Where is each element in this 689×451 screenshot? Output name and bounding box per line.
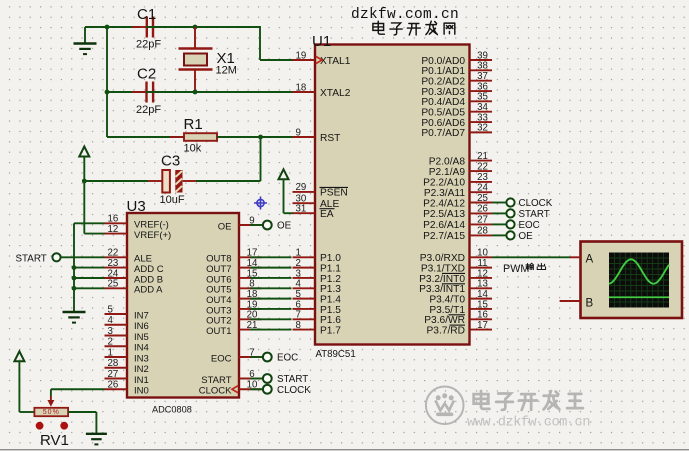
svg-text:P0.7/AD7: P0.7/AD7 — [421, 128, 465, 139]
svg-text:22pF: 22pF — [136, 104, 161, 116]
junction — [72, 276, 77, 281]
svg-text:32: 32 — [477, 123, 488, 134]
U1 pin 8 P1.7 — [293, 320, 342, 337]
wire — [146, 26, 195, 28]
svg-text:IN3: IN3 — [134, 353, 149, 364]
junction — [105, 25, 110, 30]
U1 pin 39 P0.0/AD0 — [421, 50, 492, 67]
svg-text:XTAL1: XTAL1 — [320, 56, 351, 67]
svg-text:OE: OE — [218, 221, 232, 232]
svg-text:5: 5 — [108, 304, 113, 315]
svg-text:23: 23 — [108, 258, 119, 269]
svg-text:25: 25 — [477, 193, 488, 204]
label R1 — [184, 116, 203, 133]
svg-text:P2.0/A8: P2.0/A8 — [429, 156, 466, 167]
power +5V — [79, 147, 89, 182]
svg-text:12M: 12M — [216, 65, 237, 77]
potentiometer RV1 — [34, 408, 68, 416]
wire — [107, 91, 146, 93]
U3 pin 25 ADD A — [105, 279, 164, 296]
U3 pin 7 EOC — [211, 347, 262, 364]
svg-text:ADC0808: ADC0808 — [152, 404, 192, 414]
terminal EOC — [263, 353, 298, 364]
U3 pin 16 VREF(-) — [105, 214, 169, 231]
terminal CLOCK — [263, 385, 311, 396]
U3 pin 3 IN5 — [105, 326, 149, 343]
wire — [84, 180, 148, 182]
U3 pin 26 IN0 — [105, 380, 149, 397]
svg-text:START: START — [16, 254, 47, 265]
node PWM output — [503, 263, 529, 275]
microcontroller U1 — [312, 33, 470, 360]
U1 pin 18 XTAL2 — [293, 82, 351, 99]
svg-text:36: 36 — [477, 81, 488, 92]
U1 pin 4 P1.3 — [293, 279, 342, 296]
U1 pin 15 P3.5/T1 — [429, 299, 492, 316]
wire OUT1 to P1.7 — [250, 329, 292, 331]
ADC U3 — [127, 198, 240, 414]
junction — [72, 286, 77, 291]
ground — [63, 312, 86, 323]
svg-text:18: 18 — [296, 82, 307, 93]
U1 pin 23 P2.2/A10 — [423, 172, 492, 189]
svg-text:IN7: IN7 — [134, 310, 149, 321]
svg-text:12: 12 — [108, 224, 119, 235]
label C2 — [137, 66, 156, 83]
U3 pin 27 IN1 — [105, 369, 149, 386]
U1 pin 14 P3.4/T0 — [429, 289, 492, 306]
wire — [250, 224, 263, 226]
value 12M — [216, 65, 237, 77]
U1 pin 3 P1.2 — [293, 268, 342, 285]
wire — [84, 181, 105, 234]
svg-text:C2: C2 — [137, 66, 156, 83]
junction — [258, 135, 263, 140]
svg-text:U3: U3 — [127, 198, 146, 215]
svg-text:IN6: IN6 — [134, 321, 149, 332]
U1 PSEN overline — [320, 186, 349, 188]
watermark 电子开发网 — [373, 21, 455, 35]
U3 pin 12 VREF(+) — [105, 224, 172, 241]
svg-text:A: A — [586, 254, 594, 266]
svg-text:19: 19 — [296, 50, 307, 61]
U1 pin 32 P0.7/AD7 — [421, 123, 492, 140]
U1 pin 22 P2.1/A9 — [429, 161, 492, 178]
svg-text:dzkfw.com.cn: dzkfw.com.cn — [351, 7, 459, 23]
capacitor C1 — [132, 17, 168, 38]
U3 pin 2 IN4 — [105, 337, 149, 354]
U3 pin 19 OUT3 — [206, 299, 261, 316]
value 22pF — [136, 104, 161, 116]
terminal START — [16, 253, 61, 265]
U1 pin 2 P1.1 — [293, 258, 342, 275]
U1 pin 37 P0.2/AD2 — [421, 71, 492, 88]
crystal X1 — [179, 27, 213, 92]
U1 pin 31 EA — [293, 204, 334, 221]
U1 pin 1 P1.0 — [293, 248, 342, 265]
svg-text:4: 4 — [108, 315, 114, 326]
capacitor C3 — [148, 170, 196, 193]
U1 pin 19 XTAL1 — [293, 50, 351, 67]
power +5V — [279, 169, 289, 213]
U1 pin 12 P3.2/INT0 — [419, 268, 492, 285]
U1 pin 6 P1.5 — [293, 299, 342, 316]
svg-text:1: 1 — [108, 347, 113, 358]
svg-text:OUT1: OUT1 — [206, 326, 231, 337]
wire — [195, 26, 294, 60]
U1 pin 9 RST — [293, 127, 341, 144]
svg-text:P2.1/A9: P2.1/A9 — [429, 167, 466, 178]
wire — [284, 212, 294, 214]
wire — [492, 212, 506, 214]
svg-text:U1: U1 — [312, 33, 331, 50]
svg-text:C3: C3 — [161, 153, 180, 170]
U1 pin 7 P1.6 — [293, 310, 342, 327]
svg-text:35: 35 — [477, 92, 488, 103]
U1 pin 21 P2.0/A8 — [429, 151, 492, 168]
label C3 — [161, 153, 180, 170]
svg-text:B: B — [586, 298, 594, 310]
ground — [74, 27, 97, 54]
wire — [106, 26, 108, 92]
U3 pin 4 IN6 — [105, 315, 149, 332]
wire — [74, 267, 105, 269]
U3 pin 28 IN2 — [105, 358, 149, 375]
wire — [250, 388, 263, 390]
ground — [86, 434, 107, 445]
svg-text:START: START — [201, 375, 231, 386]
wire — [492, 234, 506, 236]
svg-text:ADD A: ADD A — [134, 285, 163, 296]
U1 pin 11 P3.1/TXD — [421, 258, 492, 275]
node PWM output cjk — [526, 263, 546, 270]
wire OUT6 to P1.2 — [250, 277, 292, 279]
junction — [105, 90, 110, 95]
value 10k — [184, 143, 202, 155]
value 10uF — [160, 194, 185, 206]
wire — [492, 223, 506, 225]
wire — [107, 92, 184, 137]
svg-text:9: 9 — [296, 127, 301, 138]
U1 pin 5 P1.4 — [293, 289, 342, 306]
U3 pin 10 CLOCK — [199, 380, 262, 397]
svg-text:50%: 50% — [43, 409, 60, 416]
oscilloscope — [560, 242, 682, 319]
wire — [146, 91, 195, 93]
wire — [74, 277, 105, 279]
junction — [193, 25, 198, 30]
wire — [250, 378, 263, 380]
svg-text:RST: RST — [320, 133, 340, 144]
U3 pin 14 OUT7 — [206, 258, 261, 275]
svg-text:CLOCK: CLOCK — [519, 198, 553, 209]
label C1 — [137, 6, 156, 23]
svg-text:IN5: IN5 — [134, 332, 149, 343]
svg-text:EA: EA — [320, 209, 334, 220]
U1 pin 35 P0.4/AD4 — [421, 92, 492, 109]
svg-text:P2.6/A14: P2.6/A14 — [423, 220, 465, 231]
terminal OE — [506, 231, 533, 242]
wire — [61, 256, 105, 258]
wire — [74, 223, 105, 312]
power +5V — [14, 351, 24, 412]
wire — [85, 26, 140, 28]
resistor R1 — [170, 133, 231, 141]
wire OUT8 to P1.0 — [250, 256, 292, 258]
wire — [19, 411, 34, 413]
terminal CLOCK — [506, 198, 552, 209]
svg-text:22pF: 22pF — [136, 39, 161, 51]
svg-text:22: 22 — [477, 161, 488, 172]
svg-text:AT89C51: AT89C51 — [316, 349, 356, 360]
svg-text:21: 21 — [477, 151, 488, 162]
svg-text:P2.5/A13: P2.5/A13 — [423, 209, 465, 220]
U1 pin 30 ALE — [293, 194, 340, 211]
svg-text:27: 27 — [108, 369, 119, 380]
svg-text:2: 2 — [108, 337, 113, 348]
svg-text:3: 3 — [108, 326, 113, 337]
U1 pin 24 P2.3/A11 — [424, 183, 492, 200]
svg-text:EOC: EOC — [211, 353, 232, 364]
wire — [250, 356, 263, 358]
capacitor C2 — [132, 82, 168, 103]
U3 pin 18 OUT4 — [206, 289, 261, 306]
label X1 — [217, 50, 235, 67]
wire — [51, 388, 105, 390]
U1 pin 10 P3.0/RXD — [420, 248, 492, 265]
svg-text:EOC: EOC — [277, 353, 298, 364]
svg-text:ADD C: ADD C — [134, 264, 164, 275]
svg-text:28: 28 — [108, 358, 119, 369]
wire — [217, 136, 294, 138]
origin marker — [254, 197, 267, 210]
wire — [195, 91, 294, 93]
value 22pF — [136, 39, 161, 51]
svg-text:C1: C1 — [137, 6, 156, 23]
svg-text:31: 31 — [296, 204, 307, 215]
svg-text:26: 26 — [108, 380, 119, 391]
svg-text:IN0: IN0 — [134, 386, 149, 397]
U1 pin 34 P0.5/AD5 — [421, 102, 492, 119]
U3 pin 22 ALE — [105, 248, 152, 265]
wiper arrow — [47, 389, 54, 407]
svg-text:www.dzkfw.com.cn: www.dzkfw.com.cn — [467, 415, 590, 431]
svg-text:27: 27 — [477, 215, 488, 226]
U3 pin 15 OUT6 — [206, 268, 261, 285]
svg-text:IN2: IN2 — [134, 364, 149, 375]
wire — [492, 202, 506, 204]
U1 pin 28 P2.7/A15 — [423, 226, 492, 243]
svg-text:R1: R1 — [184, 116, 203, 133]
wire OUT5 to P1.3 — [250, 287, 292, 289]
wire OUT4 to P1.4 — [250, 298, 292, 300]
wire OUT3 to P1.5 — [250, 308, 292, 310]
svg-text:8: 8 — [296, 320, 301, 331]
svg-text:START: START — [519, 209, 550, 220]
svg-text:P1.7: P1.7 — [320, 325, 341, 336]
terminal EOC — [506, 220, 539, 231]
wire — [68, 412, 96, 434]
U1 EA overline — [320, 208, 335, 210]
svg-text:P3.7/RD: P3.7/RD — [426, 325, 465, 336]
svg-text:P2.7/A15: P2.7/A15 — [423, 231, 465, 242]
svg-text:10uF: 10uF — [160, 194, 185, 206]
svg-text:VREF(+): VREF(+) — [134, 230, 171, 241]
svg-text:IN1: IN1 — [134, 375, 149, 386]
U1 pin 38 P0.1/AD1 — [421, 61, 492, 78]
U1 pin 25 P2.4/A12 — [423, 193, 492, 210]
svg-text:PSEN: PSEN — [320, 188, 348, 199]
svg-text:P0.4/AD4: P0.4/AD4 — [421, 97, 465, 108]
U1 pin 17 P3.7/RD — [426, 320, 492, 337]
U3 pin 1 IN3 — [105, 347, 149, 364]
svg-text:EOC: EOC — [519, 220, 540, 231]
svg-text:CLOCK: CLOCK — [199, 386, 232, 397]
wire — [196, 137, 261, 181]
U3 pin 5 IN7 — [105, 304, 149, 321]
svg-text:CLOCK: CLOCK — [277, 385, 311, 396]
U3 pin 20 OUT2 — [206, 310, 261, 327]
terminal START — [263, 374, 308, 385]
svg-text:XTAL2: XTAL2 — [320, 88, 351, 99]
svg-text:29: 29 — [296, 182, 307, 193]
U3 pin 9 OE — [218, 215, 262, 232]
svg-text:START: START — [277, 374, 308, 385]
svg-text:PWM: PWM — [503, 263, 529, 275]
wire OUT2 to P1.6 — [250, 318, 292, 320]
svg-text:P2.4/A12: P2.4/A12 — [423, 198, 465, 209]
svg-text:P0.3/AD3: P0.3/AD3 — [421, 87, 465, 98]
terminal dot — [60, 422, 68, 430]
U3 CLOCK clock marker — [232, 386, 238, 393]
svg-text:26: 26 — [477, 204, 488, 215]
svg-text:IN4: IN4 — [134, 343, 149, 354]
U1 pin 13 P3.3/INT1 — [419, 279, 492, 296]
U3 pin 8 OUT5 — [206, 279, 261, 296]
watermark logo www.dzkfw.com.cn — [426, 387, 590, 431]
watermark dzkfw.com.cn — [351, 7, 459, 23]
svg-text:10k: 10k — [184, 143, 202, 155]
wire — [492, 256, 570, 258]
svg-text:OE: OE — [277, 221, 292, 232]
U1 XTAL1 clock marker — [316, 56, 322, 63]
terminal OE — [263, 221, 292, 232]
U3 pin 21 OUT1 — [206, 320, 261, 337]
svg-text:28: 28 — [477, 226, 488, 237]
U3 pin 23 ADD C — [105, 258, 164, 275]
terminal dot — [36, 422, 44, 430]
junction — [72, 265, 77, 270]
wire OUT7 to P1.1 — [250, 267, 292, 269]
junction — [82, 179, 87, 184]
U1 pin 27 P2.6/A14 — [423, 215, 492, 232]
wire — [74, 287, 105, 289]
U1 pin 36 P0.3/AD3 — [421, 81, 492, 98]
U3 pin 6 START — [201, 369, 261, 386]
svg-text:OE: OE — [519, 231, 534, 242]
svg-text:17: 17 — [477, 320, 488, 331]
U1 pin 26 P2.5/A13 — [423, 204, 492, 221]
U3 pin 24 ADD B — [105, 268, 164, 285]
junction — [193, 90, 198, 95]
svg-text:25: 25 — [108, 279, 119, 290]
U3 pin 17 OUT8 — [206, 248, 261, 265]
U1 pin 33 P0.6/AD6 — [421, 112, 492, 129]
label RV1 — [40, 432, 69, 449]
terminal START — [506, 209, 549, 220]
U1 pin 16 P3.6/WR — [424, 310, 492, 327]
U1 pin 29 PSEN — [293, 182, 348, 199]
svg-text:RV1: RV1 — [40, 432, 69, 449]
